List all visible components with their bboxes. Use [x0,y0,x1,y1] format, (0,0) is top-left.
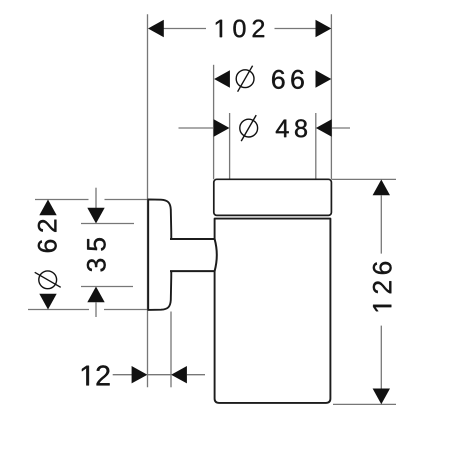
wall plate (side view) [148,199,171,310]
extension line phi66 left [213,65,215,180]
tumbler body [215,219,331,403]
dimension phi 48 [179,115,351,141]
dimension 12 (bottom) [82,365,205,385]
stem / holder arm with ring arc [170,239,217,271]
extension line plate-front (12 right) [170,312,172,388]
dimension phi 62 (vertical, left) [28,200,148,310]
tumbler rim band [214,179,332,215]
extension line phi48 right [315,113,317,179]
dimension 102 [148,20,331,38]
extension line phi48 left [229,113,231,179]
dimension phi 66 [214,66,331,92]
dimension 126 (vertical, right) [332,179,396,404]
dimension 35 (vertical) [81,188,134,317]
extension line wall (left of 102) [147,14,149,387]
extension line right (102 / phi66 right) [330,14,332,179]
